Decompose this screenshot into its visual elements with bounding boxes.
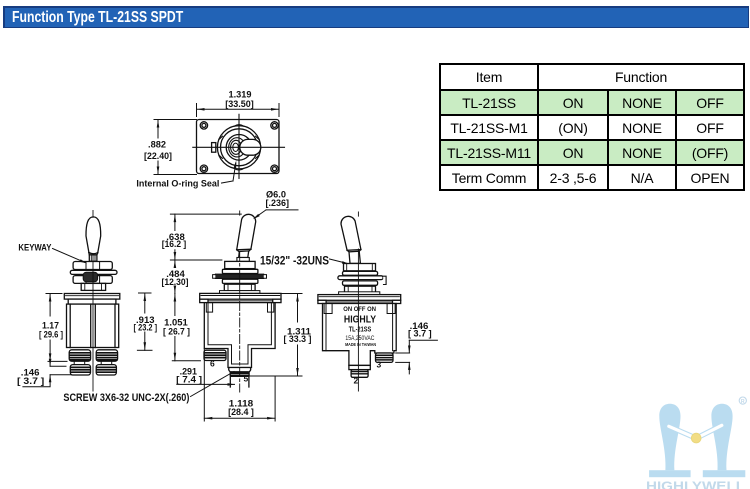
- title bar: [3, 6, 749, 28]
- left switch mounting flange: [64, 294, 120, 305]
- svg-text:[28.4 ]: [28.4 ]: [228, 407, 254, 417]
- svg-text:HIGHLY: HIGHLY: [344, 314, 376, 325]
- dimension 1.319 [33.50] top width: [197, 90, 280, 117]
- dimension .913 [23.2]: [134, 293, 158, 350]
- middle switch terminal 5: [229, 368, 251, 388]
- svg-text:[22.40]: [22.40]: [144, 151, 172, 161]
- dimension .146 [3.7] right terminal height: [396, 321, 438, 374]
- top view corner hole BL: [200, 165, 207, 172]
- svg-text:[ 33.3 ]: [ 33.3 ]: [284, 334, 312, 345]
- svg-text:[ 29.6 ]: [ 29.6 ]: [39, 330, 63, 340]
- dimension 1.311 [33.3] total height: [248, 294, 312, 377]
- svg-text:[ 23.2 ]: [ 23.2 ]: [134, 323, 158, 333]
- top view: mounting frame: [197, 120, 280, 174]
- svg-text:5: 5: [244, 373, 249, 383]
- left switch keyway boss (dark): [83, 272, 97, 282]
- svg-text:[ 3.7 ]: [ 3.7 ]: [17, 376, 44, 386]
- svg-text:6: 6: [210, 359, 215, 369]
- dimension 1.17 [29.6]: [39, 294, 67, 362]
- right switch markings: [343, 307, 376, 347]
- svg-text:3: 3: [377, 360, 382, 370]
- middle switch flange: [200, 291, 281, 303]
- label 15/32in -32UNS with leader: [260, 253, 350, 267]
- svg-text:[16.2 ]: [16.2 ]: [162, 239, 187, 249]
- top view corner hole BR: [271, 165, 278, 172]
- svg-text:HIGHLYWELL: HIGHLYWELL: [646, 479, 745, 489]
- svg-text:KEYWAY: KEYWAY: [18, 243, 52, 254]
- svg-text:MADE IN TAIWAN: MADE IN TAIWAN: [345, 342, 376, 347]
- dimension .882 [22.40] left height: [144, 120, 197, 175]
- middle switch bushing: [213, 261, 267, 290]
- svg-text:TL-21SS: TL-21SS: [349, 327, 372, 334]
- svg-text:15A,250VAC: 15A,250VAC: [345, 336, 375, 342]
- top view corner hole TR: [271, 122, 278, 129]
- top view corner hole TL: [200, 122, 207, 129]
- svg-text:[ 3.7 ]: [ 3.7 ]: [408, 328, 432, 338]
- top view lever (pointing right): [240, 139, 261, 155]
- left switch bushing stack: [70, 262, 117, 291]
- label: Internal O-ring Seal with leader: [136, 161, 236, 190]
- svg-text:[33.50]: [33.50]: [225, 99, 254, 109]
- label KEYWAY with leader: [18, 243, 87, 264]
- label dia 6.0 [.236] with leader: [253, 189, 298, 219]
- dimension .146 [3.7] left terminal height: [17, 359, 71, 387]
- right switch terminal 3: [376, 353, 394, 362]
- top view keyway notch: [212, 143, 216, 153]
- right switch body: [323, 304, 397, 366]
- top view bushing rings: [217, 125, 260, 171]
- svg-text:SCREW 3X6-32 UNC-2X(.260): SCREW 3X6-32 UNC-2X(.260): [63, 392, 189, 404]
- left switch centerline: [92, 211, 94, 392]
- middle switch centerline: [239, 211, 241, 392]
- svg-text:[ 26.7 ]: [ 26.7 ]: [163, 326, 190, 336]
- left switch body: [67, 304, 119, 347]
- middle switch lever (tilted): [237, 214, 256, 261]
- svg-text:.882: .882: [148, 140, 166, 150]
- svg-text:R: R: [741, 399, 745, 405]
- right switch flange: [318, 292, 401, 304]
- svg-text:[ 7.4 ]: [ 7.4 ]: [176, 374, 202, 384]
- right switch centerline: [357, 212, 359, 391]
- svg-text:ON OFF ON: ON OFF ON: [343, 307, 376, 313]
- right switch lever (tilted left): [341, 216, 361, 263]
- HIGHLYWELL logo watermark: [646, 397, 746, 489]
- middle switch terminal 6: [204, 350, 226, 360]
- left switch terminals (screws): [69, 350, 117, 375]
- top view centerlines: [193, 114, 285, 178]
- right switch bushing: [338, 264, 386, 293]
- svg-text:[.236]: [.236]: [266, 198, 290, 209]
- label SCREW 3X6-32 UNC-2X(.260) with leader: [63, 372, 234, 404]
- dimension 1.118 [28.4] body width: [204, 349, 275, 421]
- dimension .291 [7.4]: [176, 366, 235, 385]
- dimension .484 [12.30] bushing height: [162, 260, 189, 294]
- svg-text:2: 2: [354, 375, 359, 385]
- dimension 1.051 [26.7] body height: [163, 294, 200, 361]
- middle switch body: [204, 303, 275, 368]
- left switch lever (bat handle): [86, 217, 101, 261]
- svg-text:15/32" -32UNS: 15/32" -32UNS: [260, 253, 329, 267]
- function table: [439, 63, 745, 191]
- dimension .638 [16.2] lever length: [162, 214, 242, 260]
- right switch terminal 2: [349, 365, 370, 377]
- svg-text:Internal O-ring Seal: Internal O-ring Seal: [136, 179, 219, 190]
